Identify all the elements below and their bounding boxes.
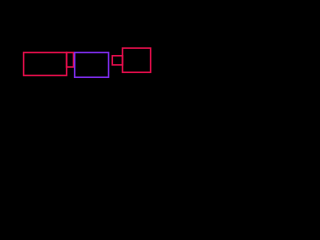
block B: small red tab between block A and block C xyxy=(67,53,74,68)
block C: purple middle box xyxy=(75,53,109,78)
block E: large right red box xyxy=(123,48,151,72)
block D: small red connector square left of block E xyxy=(112,56,122,65)
block A: large left red box xyxy=(24,53,67,76)
